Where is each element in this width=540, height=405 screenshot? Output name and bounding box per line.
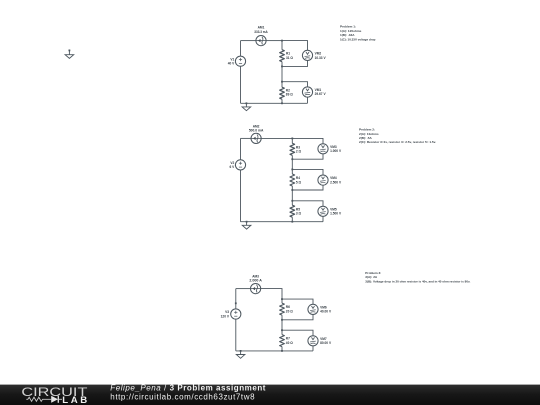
wire node B3 to node C3 (281, 320, 283, 330)
svg-text:40 Ω: 40 Ω (286, 341, 293, 345)
resistor R7 (280, 335, 285, 347)
wire R6 top lead (281, 299, 283, 303)
wire AM1 to node A1 (266, 40, 282, 42)
wire node C3 to VM7 top (282, 330, 313, 335)
wire VM5 bottom lead (322, 216, 324, 221)
node above V3 (235, 302, 237, 304)
svg-text:6 V: 6 V (230, 165, 236, 169)
wire top-left (V1 top to AM1) (241, 40, 256, 42)
resistor R5 (290, 205, 295, 217)
svg-text:3(A): 2A: 3(A): 2A (365, 275, 378, 279)
wire VM4 bottom to node D2 (292, 185, 323, 190)
voltmeter VM7 (308, 336, 318, 346)
svg-text:40 V: 40 V (228, 62, 235, 66)
wire AM2 to node A2 (261, 137, 292, 139)
ammeter AM1 (256, 36, 266, 46)
wire V2 bottom to bottom rail (240, 170, 242, 222)
svg-text:2 Ω: 2 Ω (296, 150, 302, 154)
wire R7 bottom lead (281, 347, 283, 351)
wire node A2 to VM3 top corner (292, 138, 323, 143)
svg-text:120 V: 120 V (221, 314, 230, 318)
wire node A1 to VM2 top corner (282, 41, 308, 51)
resistor R1 (280, 50, 285, 62)
voltmeter VM6 (308, 304, 318, 314)
svg-text:1.500 V: 1.500 V (330, 212, 342, 216)
node B1 junction (281, 66, 283, 68)
svg-text:LAB: LAB (62, 395, 87, 405)
voltmeter VM5 (318, 206, 328, 216)
wire node D2 to node E2 (291, 190, 293, 201)
junction at ground 2 (246, 221, 248, 223)
wire VM6 bottom to node B3 (282, 315, 313, 320)
svg-text:80.00 V: 80.00 V (320, 341, 332, 345)
svg-text:29.67 V: 29.67 V (315, 92, 327, 96)
voltmeter VM1 (302, 87, 312, 97)
wire bottom rail circuit 2 (241, 221, 324, 223)
svg-text:2(C): Resistor 3=1v, resistor: 2(C): Resistor 3=1v, resistor 4= 2.5v, r… (359, 140, 436, 144)
voltage source V1 (235, 56, 245, 66)
node A1 junction (281, 40, 283, 42)
svg-text:333.3 mA: 333.3 mA (254, 30, 268, 34)
wire R1 bottom lead to node B1 (281, 62, 283, 67)
svg-text:89 Ω: 89 Ω (286, 93, 293, 97)
wire AM3 to top-right corner (261, 289, 282, 300)
wire node E2 to VM5 top (292, 201, 323, 206)
resistor R6 (280, 303, 285, 315)
junction at ground 1 (246, 102, 248, 104)
wire left branch (top to V3) (235, 289, 237, 309)
voltmeter VM4 (318, 175, 328, 185)
wire V3 bottom to bottom rail (235, 319, 237, 351)
voltmeter VM3 (318, 144, 328, 154)
svg-text:CIRCUIT: CIRCUIT (21, 385, 87, 398)
wire top-left (V3 top to AM3) (236, 288, 251, 290)
svg-text:40.00 V: 40.00 V (320, 310, 332, 314)
wire node A3 to VM6 top (282, 299, 313, 304)
ground (circuit 1) (242, 103, 251, 110)
node D3 junction (R7 at bottom rail) (281, 350, 283, 352)
node F2 junction (R5 at bottom rail) (291, 221, 293, 223)
wire node C1 to VM1 top (282, 82, 308, 87)
wire R2 bottom lead (281, 99, 283, 103)
voltmeter VM2 (302, 50, 312, 60)
node B3 junction (281, 319, 283, 321)
wire node B2 to node C2 (291, 159, 293, 169)
wire R4 bottom lead to node D2 (291, 186, 293, 190)
svg-text:2.500 V: 2.500 V (330, 180, 342, 184)
svg-text:500.0 mA: 500.0 mA (249, 129, 264, 133)
svg-text:10.33 V: 10.33 V (315, 56, 327, 60)
node A3 junction (281, 298, 283, 300)
node C2 junction (291, 169, 293, 171)
wire top-left (V2 top to AM2) (241, 137, 252, 139)
logo resistor zigzag (26, 397, 51, 401)
svg-text:3(B): Voltage drop in 20 ohm r: 3(B): Voltage drop in 20 ohm resistor is… (365, 280, 470, 284)
node D2 junction (291, 189, 293, 191)
wire left branch upper (top wire to V1) (240, 41, 242, 57)
wire R1 top lead (281, 41, 283, 50)
node B2 junction (291, 158, 293, 160)
svg-text:31 Ω: 31 Ω (286, 56, 293, 60)
wire node C2 to VM4 top (292, 169, 323, 175)
ammeter AM3 (251, 284, 261, 294)
wire VM2 bottom to node B1 (282, 61, 308, 67)
svg-text:5 Ω: 5 Ω (296, 180, 302, 184)
resistor R4 (290, 174, 295, 186)
wire bottom rail circuit 3 (236, 350, 313, 352)
node D1 junction (R2 at bottom rail) (281, 102, 283, 104)
wire V1 bottom to bottom rail (240, 66, 242, 103)
ammeter AM2 (251, 133, 261, 143)
voltage source V3 (231, 309, 241, 319)
node A2 junction (291, 138, 293, 140)
svg-text:1.000 V: 1.000 V (330, 149, 342, 153)
voltage source V2 (235, 160, 245, 170)
node C1 junction (281, 81, 283, 83)
wire node B1 to node C1 (281, 66, 283, 81)
wire left branch (top wire to V2) (240, 138, 242, 159)
svg-text:Problem 1:: Problem 1: (340, 24, 356, 28)
svg-text:20 Ω: 20 Ω (286, 309, 293, 313)
ground (circuit 3) (236, 351, 245, 358)
logo diode (51, 396, 58, 403)
node C3 junction (281, 329, 283, 331)
footer bar (0, 385, 540, 405)
wire VM1 bottom lead (307, 97, 309, 103)
resistor R2 (280, 87, 285, 99)
wire R5 bottom lead (291, 217, 293, 222)
wire R3 top lead (291, 138, 293, 143)
wire R4 top lead (291, 169, 293, 174)
svg-text:1(C): 10.33V voltage drop: 1(C): 10.33V voltage drop (340, 37, 376, 41)
ground (circuit 2) (242, 222, 251, 229)
junction at ground 3 (240, 350, 242, 352)
wire R3 bottom lead to node B2 (291, 155, 293, 159)
node E2 junction (291, 200, 293, 202)
resistor R3 (290, 143, 295, 155)
wire R5 top lead (291, 201, 293, 205)
ground (standalone, top-left) (65, 50, 74, 59)
svg-text:2.000 A: 2.000 A (249, 279, 262, 283)
wire VM7 bottom lead (312, 346, 314, 351)
svg-text:3 Ω: 3 Ω (296, 212, 302, 216)
wire R7 top lead (281, 330, 283, 334)
wire R6 bottom lead to node B3 (281, 315, 283, 320)
wire R2 top lead (281, 82, 283, 88)
wire VM3 bottom to node B2 (292, 154, 323, 159)
svg-text:http://circuitlab.com/ccdh63zu: http://circuitlab.com/ccdh63zut7tw8 (110, 392, 255, 401)
wire bottom rail circuit 1 (241, 102, 308, 104)
svg-text:Felipe_Pena / 3 Problem assign: Felipe_Pena / 3 Problem assignment (110, 384, 266, 393)
